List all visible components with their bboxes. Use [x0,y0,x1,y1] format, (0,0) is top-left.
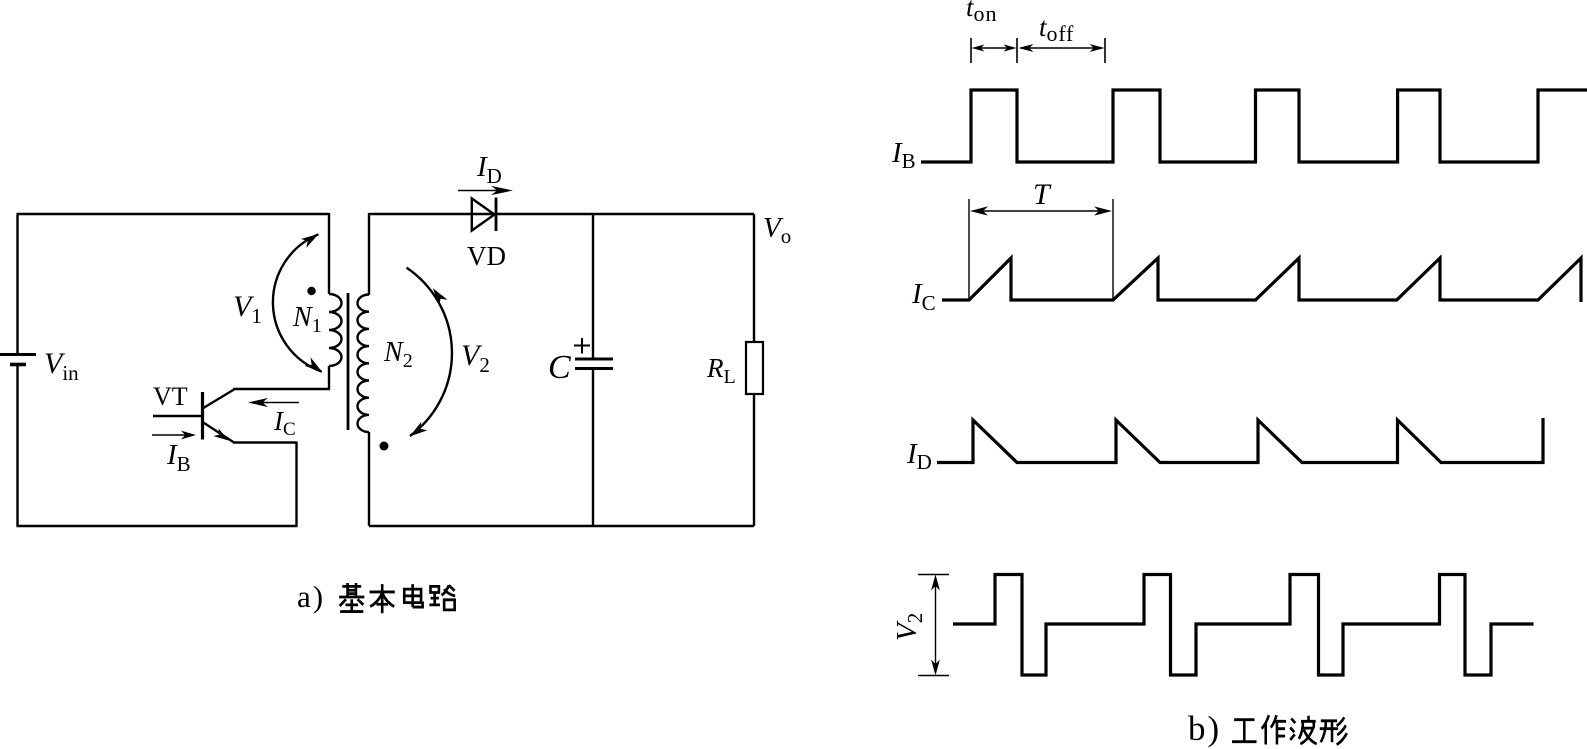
caption b) hanzi 工作波形 [1232,715,1347,744]
wire base lead [153,415,203,417]
wire right rail lower [753,394,755,526]
arrow IC [248,398,299,407]
svg-text:ID: ID [906,438,932,474]
hanzi 本 [370,584,395,613]
battery Vin long plate [0,353,36,356]
marker V2 amplitude arrow [931,575,940,676]
wire left rail lower [16,366,18,526]
capacitor C bottom plate [575,367,613,370]
dot N2 polarity [380,442,389,451]
marker ton arrow [972,44,1017,51]
svg-text:N2: N2 [383,337,413,372]
svg-text:toff: toff [1039,12,1074,46]
svg-text:V2: V2 [891,613,927,641]
waveform IB trace [921,90,1587,162]
svg-text:Vo: Vo [763,212,791,248]
wire N2 top lead [368,213,370,295]
arc V1 top arrowhead [301,234,319,248]
marker toff arrow [1019,44,1105,52]
hanzi 路 [429,585,455,610]
svg-text:V2: V2 [461,339,490,377]
wire left rail upper [16,215,18,353]
marker T arrow [970,206,1112,215]
marker T ticks [969,199,1113,300]
voltage arc V2 [407,268,452,436]
capacitor C top plate [575,358,613,361]
winding N2 [357,295,369,433]
arrow IB [152,431,196,440]
wire N1 bottom lead [328,366,330,389]
hanzi 基 [339,583,364,612]
waveform IC trace [942,258,1581,302]
wire N2 bottom lead [368,432,370,526]
svg-text:VD: VD [467,241,506,271]
transistor VT base bar [201,392,204,440]
hanzi 波 [1290,716,1317,744]
arrow ID [458,186,513,195]
marker V2 amplitude ticks [918,575,949,676]
arc V1 bottom arrowhead [305,357,323,372]
waveform V2 trace [953,575,1534,676]
arc V2 bottom arrowhead [410,422,428,437]
marker ton/toff ticks [971,38,1105,63]
svg-text:a): a) [297,579,325,614]
wire emitter drop [295,442,297,527]
transistor VT collector stroke [203,390,235,409]
wire primary bottom rail [17,525,298,527]
diode VD cathode bar [495,198,498,232]
svg-text:N1: N1 [292,302,322,337]
arc V2 upper arrowhead [433,288,448,306]
wire secondary bottom rail [369,525,754,527]
wire capacitor bottom lead [592,369,594,527]
wire primary top rail [17,213,330,215]
capacitor C plus sign [574,338,590,354]
svg-text:T: T [1033,178,1052,211]
svg-text:RL: RL [706,353,736,388]
resistor RL body [746,342,763,394]
wire secondary top rail [369,213,754,215]
wire capacitor top lead [592,214,594,358]
hanzi 作 [1262,715,1286,744]
dot N1 polarity [307,287,315,295]
svg-text:IC: IC [911,278,936,315]
svg-text:ton: ton [966,0,998,26]
hanzi 电 [404,584,422,607]
svg-text:b): b) [1188,709,1221,748]
transistor VT emitter arrowhead [213,428,228,440]
svg-text:IB: IB [166,439,191,476]
transistor VT emitter stroke [203,422,235,443]
svg-text:C: C [548,349,571,386]
hanzi 形 [1320,717,1347,744]
waveform ID trace [937,418,1543,463]
svg-text:IB: IB [891,137,916,173]
svg-text:IC: IC [273,406,296,440]
svg-text:VT: VT [153,382,188,411]
wire emitter horizontal [233,441,297,443]
label V2 waveform [891,613,927,641]
voltage arc V1 [273,234,322,371]
hanzi 工 [1232,720,1256,742]
svg-text:ID: ID [476,151,502,188]
wire right rail upper [753,214,755,342]
svg-text:V1: V1 [233,290,262,328]
wire N1 top lead [328,213,330,294]
transformer core [347,293,350,430]
caption a) hanzi 基本电路 [339,583,455,613]
diode VD triangle [472,199,495,231]
winding N1 [329,294,342,366]
wire collector horizontal [233,388,330,390]
battery Vin short plate [10,363,26,367]
svg-text:Vin: Vin [44,347,79,385]
